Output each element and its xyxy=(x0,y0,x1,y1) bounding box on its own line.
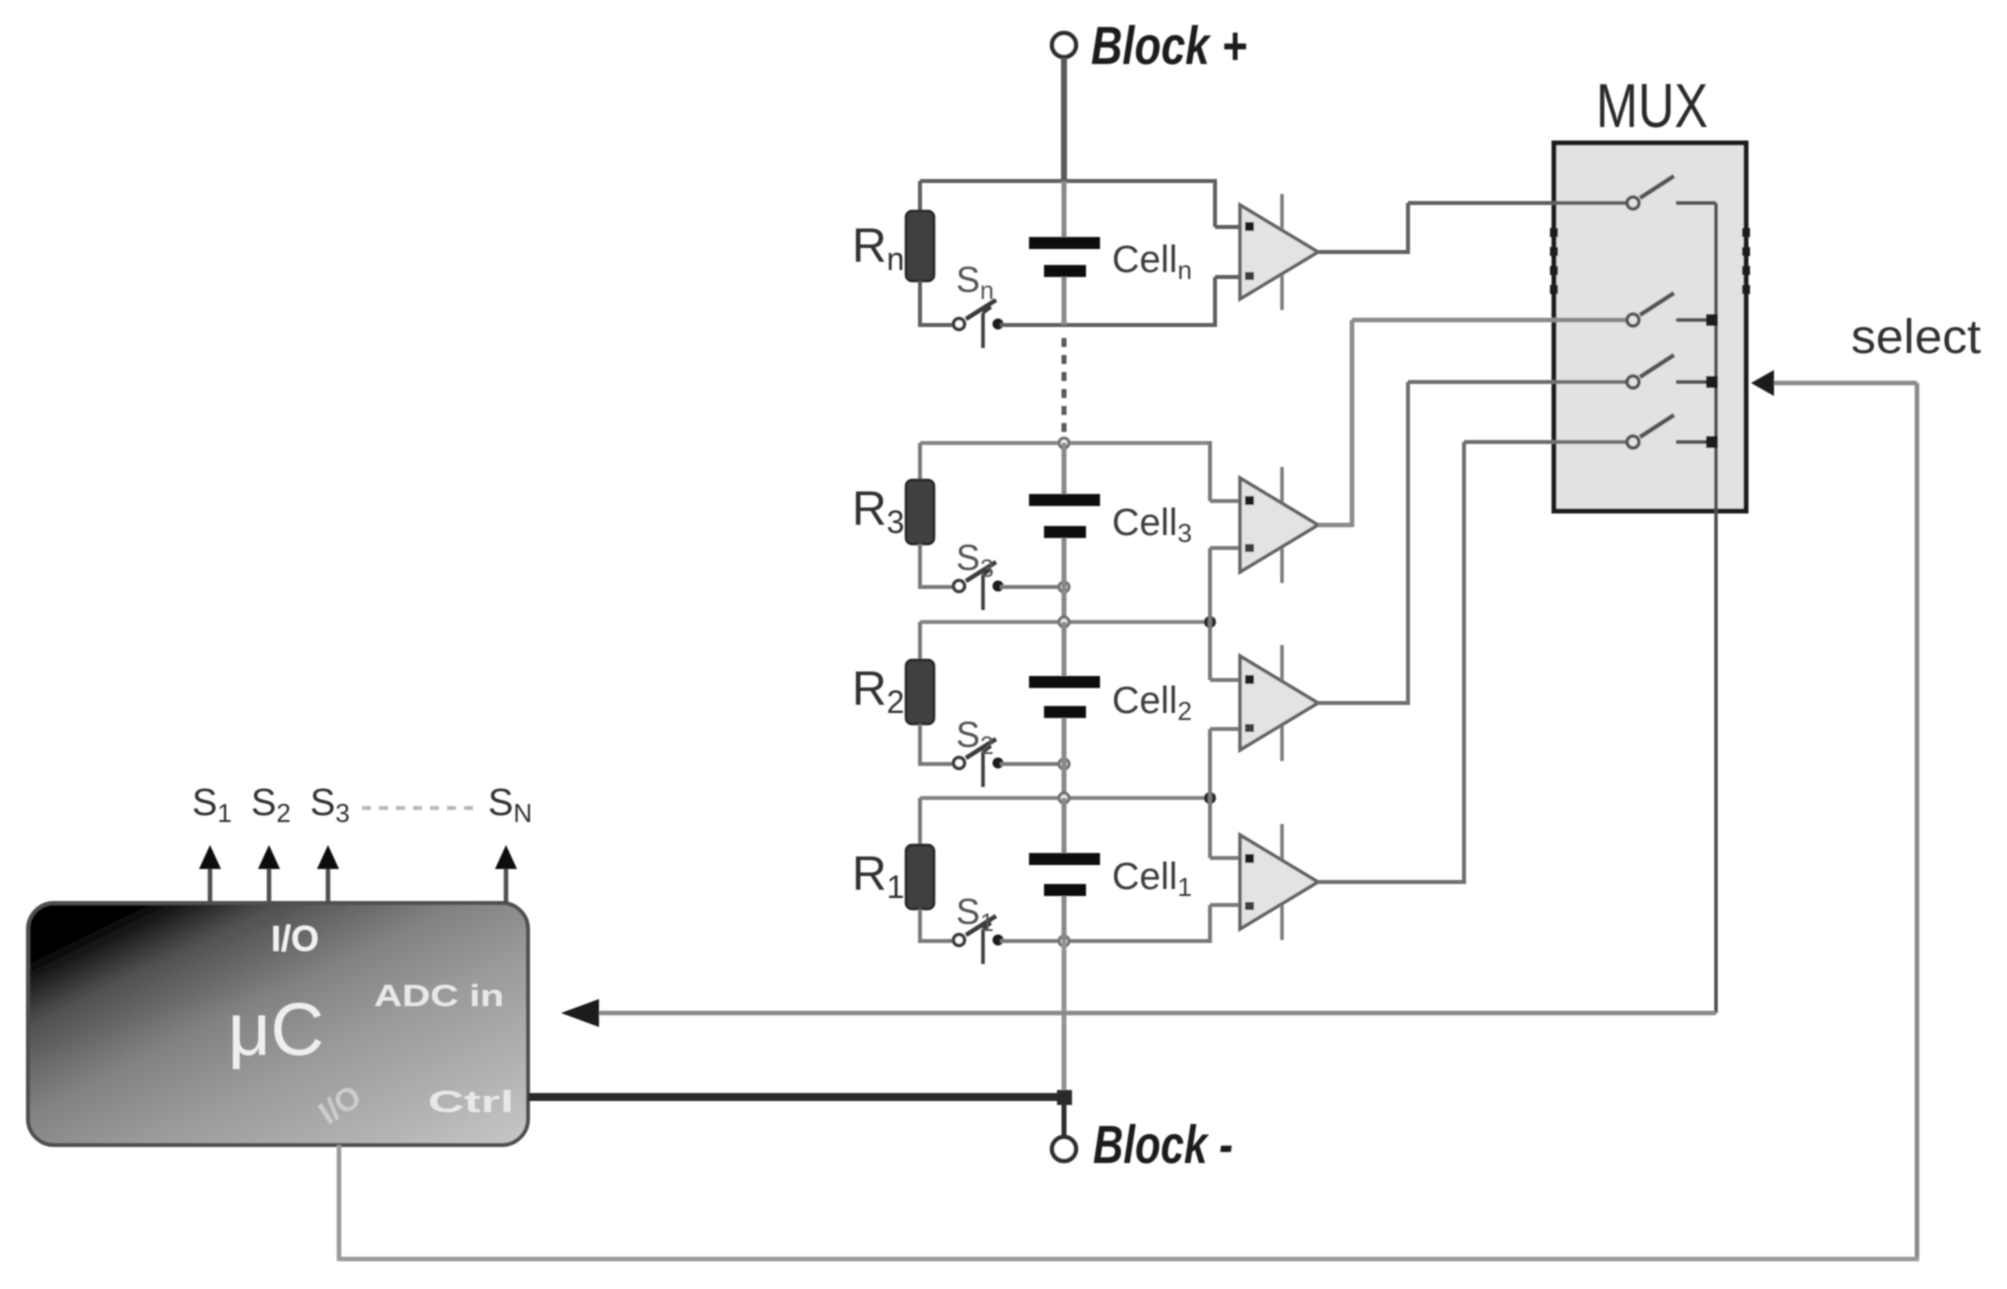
wire select horizontal xyxy=(1774,381,1917,386)
resistor Rn xyxy=(906,211,934,281)
MUX box xyxy=(1554,143,1746,511)
wire R3 branch top xyxy=(918,443,922,481)
select arrowhead xyxy=(1751,370,1774,396)
wire Rn branch bottom xyxy=(918,281,922,327)
wire center Ctrl junction to Block- xyxy=(1062,1097,1067,1137)
pin S3 arrow xyxy=(317,845,339,903)
op-amp U2 (Cell_2 buffer) xyxy=(1240,645,1318,761)
svg-text:I/O: I/O xyxy=(271,918,319,959)
wire Rn branch top xyxy=(918,181,922,212)
pin S1 arrow xyxy=(199,845,221,903)
svg-text:μC: μC xyxy=(228,988,324,1071)
resistor R1 xyxy=(906,845,934,909)
node Cell_1 top rail xyxy=(920,729,1243,858)
wire U3 output to MUX row2 xyxy=(1318,320,1631,527)
battery Cell_3 xyxy=(1029,443,1100,587)
pin uC bottom IO wire xyxy=(337,1145,342,1261)
wire select vertical xyxy=(1915,383,1920,1259)
node Cell_n top rail xyxy=(920,179,1243,227)
switch S2 xyxy=(954,739,1004,787)
microcontroller uC xyxy=(28,903,528,1145)
wire Cell_1 bottom rail left xyxy=(918,939,952,943)
battery Cell_n xyxy=(1029,181,1100,325)
ADC arrowhead xyxy=(561,999,599,1027)
svg-text:Ctrl: Ctrl xyxy=(428,1084,514,1119)
MUX left edge dots xyxy=(1550,228,1558,294)
wire Cell_n bottom rail left xyxy=(918,323,952,327)
wire Cell_3 bottom rail left xyxy=(918,585,952,589)
svg-text:Block +: Block + xyxy=(1091,16,1247,76)
wire R1 branch top xyxy=(918,798,922,846)
svg-text:MUX: MUX xyxy=(1596,72,1708,141)
battery Cell_2 xyxy=(1029,622,1100,764)
wire U4 output to MUX row1 xyxy=(1318,203,1631,254)
wire R2 branch bottom xyxy=(918,724,922,766)
op-amp U4 (Cell_n buffer) xyxy=(1240,194,1318,310)
wire center Cell_2 to Cell_1 xyxy=(1062,764,1067,798)
wire Cell_1 bottom rail right xyxy=(1000,905,1243,946)
pin SN arrow xyxy=(495,845,517,903)
MUX switch row4 xyxy=(1627,415,1718,448)
switch S1 xyxy=(954,916,1004,964)
wire Cell_2 bottom rail left xyxy=(918,762,952,766)
resistor R2 xyxy=(906,660,934,724)
MUX switch row1 xyxy=(1627,176,1716,209)
MUX right edge dots xyxy=(1742,228,1750,294)
wire R1 branch bottom xyxy=(918,909,922,943)
wire Cell_2 bottom rail right xyxy=(1000,759,1069,769)
node Ctrl junction xyxy=(1057,1090,1072,1105)
terminal Block- xyxy=(1052,1137,1076,1161)
wire dashed center segment xyxy=(1062,338,1067,440)
dashed line S3 to SN xyxy=(362,806,478,810)
battery Cell_1 xyxy=(1029,798,1100,941)
wire Block+ to Cell_n top xyxy=(1061,58,1067,181)
op-amp U3 (Cell_3 buffer) xyxy=(1240,467,1318,583)
wire ADC horizontal xyxy=(598,1011,1716,1016)
switch S3 xyxy=(954,562,1004,610)
node Cell_3 top rail xyxy=(920,438,1243,501)
wire U1 output to MUX row4 xyxy=(1318,442,1631,884)
wire Cell_n bottom rail right xyxy=(1000,277,1243,327)
terminal Block+ xyxy=(1052,33,1076,57)
MUX switch row3 xyxy=(1627,355,1718,388)
MUX switch row2 xyxy=(1627,293,1718,326)
resistor R3 xyxy=(906,480,934,544)
wire R3 branch bottom xyxy=(918,544,922,589)
wire center Cell_3 to Cell_2 xyxy=(1062,587,1067,622)
wire center Cell_1 to Ctrl junction xyxy=(1062,941,1067,1097)
wire Ctrl thick xyxy=(528,1093,1062,1101)
pin S2 arrow xyxy=(258,845,280,903)
svg-text:select: select xyxy=(1851,311,1981,364)
node Cell_2 top rail xyxy=(920,548,1243,680)
wire Cell_3 bottom rail right xyxy=(1000,582,1069,592)
svg-text:Block -: Block - xyxy=(1093,1115,1233,1175)
op-amp U1 (Cell_1 buffer) xyxy=(1240,824,1318,940)
wire U2 output to MUX row3 xyxy=(1318,382,1631,705)
MUX output bus xyxy=(1714,203,1718,1013)
switch Sn xyxy=(954,300,1004,348)
svg-text:ADC in: ADC in xyxy=(374,978,504,1013)
wire select bottom horizontal xyxy=(339,1257,1919,1262)
wire R2 branch top xyxy=(918,622,922,661)
